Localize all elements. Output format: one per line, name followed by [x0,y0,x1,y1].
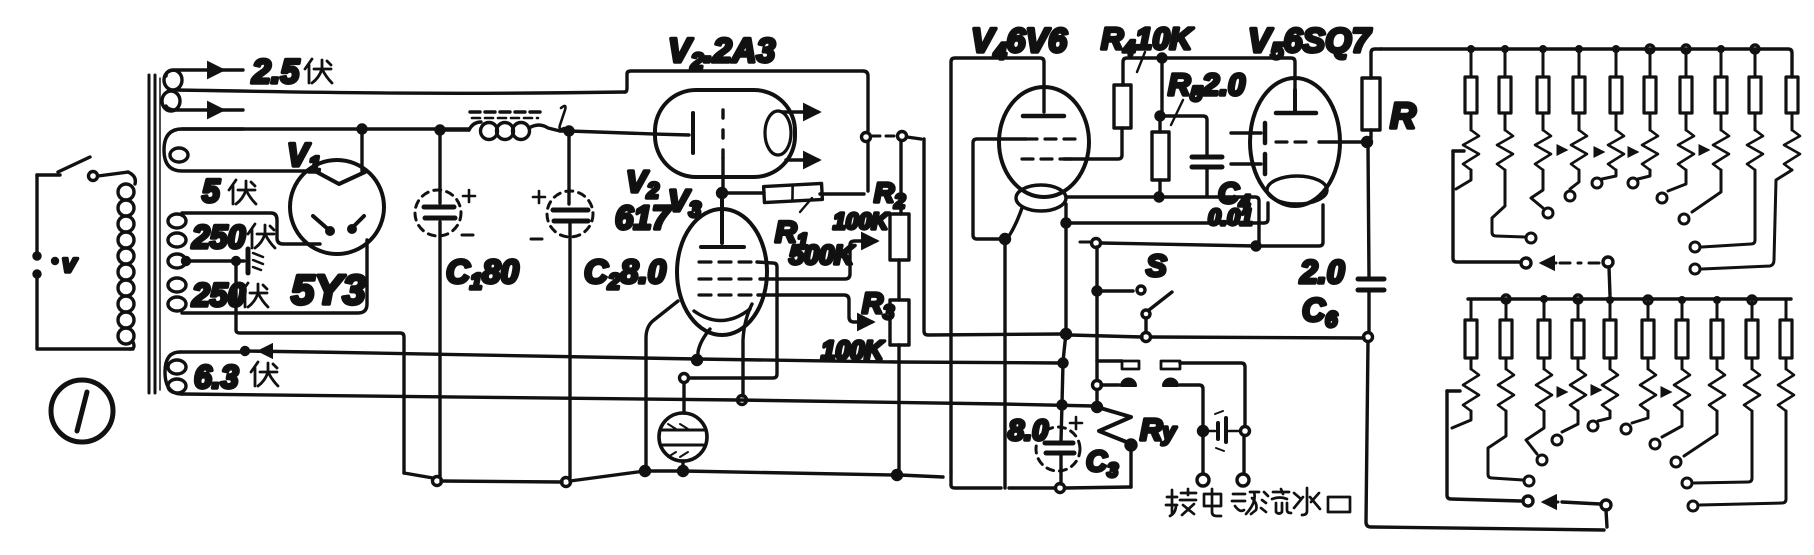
terminal bank2 tap 2 [1488,411,1523,480]
svg-text:R: R [1390,95,1416,136]
terminal bank1 tap 10 [1702,170,1792,269]
label L [560,106,566,129]
svg-text:v: v [62,248,78,278]
wire filament arrows of V2 [782,112,818,160]
resistor bank1 R1-1 [1470,49,1473,77]
resistor bank1 R1-3 [1542,49,1545,77]
choke L [469,112,560,140]
labels 伏 (volts) after each winding value [229,59,332,386]
terminals bank2 (selector taps) [1452,390,1786,511]
wire S line to V5 cathode [1080,205,1323,250]
node B+ R4/R5/V5 [1158,54,1166,62]
pin V5 diode plates [1231,123,1265,174]
resistor bank1 R1-7 [1685,49,1688,77]
wire V3 right lead to heater connector [738,304,753,405]
resistor bank2 R2-3 [1543,299,1546,320]
terminals bank1 (selector taps) [1456,150,1792,274]
resistor bank1 R1-5 [1615,49,1618,77]
wire cathode link V4/R5/C4 [1067,197,1259,244]
terminal bank1 tap 2 [1492,170,1525,237]
terminal bank1 tap 3 [1531,170,1543,208]
wire V4-V5 cathode bus [1066,203,1268,223]
tube V4 6V6 (driver) [999,87,1089,211]
wire V4 lower node down to ground [1003,239,1006,488]
wire 6.3V top lead (long, to V3 cathode and right) [180,348,1060,364]
resistor bank2 R2-7 [1681,299,1684,320]
terminal bank2 tap 3 [1526,411,1544,454]
svg-text:R52.0: R52.0 [1168,67,1245,106]
transformer T1 core [149,75,160,393]
svg-text:S: S [1146,248,1167,283]
wire bank2 collector [1447,391,1611,527]
rectifier V1 5Y3 [290,160,384,254]
resistor bank1 R1-2 [1504,49,1507,77]
node lamp top connector [680,374,689,383]
resistor R (bank feed) [1362,49,1416,138]
resistor R4 10K [1114,52,1158,128]
resistor R3 100K (pot) [890,300,909,480]
capacitor C4 0.01 [1160,116,1222,196]
resistor bank2 R2-10 [1785,299,1788,320]
winding 2.5V (filament of 2A3) [162,70,625,111]
transformer T1 primary winding [118,172,135,349]
wire bank2 tap 1 [1452,411,1471,428]
figure number 1 [51,380,113,442]
winding 5V (5Y3 filament / B+) [164,129,469,171]
svg-text:8.0: 8.0 [1008,415,1048,447]
svg-text:C28.0: C28.0 [584,253,667,294]
node v (mains terminal) [53,248,79,278]
resistors bank2 (ten dropping resistors with rheostats) [1463,299,1794,411]
terminal bank2 tap 4 [1562,411,1578,432]
wire V5 grid out to node R [1319,138,1372,147]
svg-text:100K: 100K [833,208,889,234]
svg-text:250: 250 [191,277,246,313]
lamp / output jack [659,383,707,476]
terminal bank2 tap 9 [1694,411,1752,483]
winding 6.3V [165,352,186,394]
terminal bank2 tap 10 [1700,411,1786,505]
wire ground rail right portion [951,472,1131,488]
wire bank1 tap 1 [1456,170,1471,189]
svg-text:V3: V3 [668,183,701,222]
svg-text:2.0: 2.0 [1299,254,1345,290]
svg-text:Ry: Ry [1140,412,1177,447]
wire bank1 collector / dash-dot link [1453,151,1613,295]
bus bank2 top [1468,297,1791,300]
wire ground rail (bottom bus) [404,467,943,483]
wire V3 top grid line down to lamp node [689,262,777,378]
svg-text:617: 617 [615,199,672,236]
label 接电动流水口 [1166,488,1350,516]
resistor bank1 R1-4 [1578,49,1581,77]
wire filament bracket over V2 [625,71,921,142]
svg-text:500K: 500K [789,240,856,270]
svg-text:V2: V2 [626,164,660,203]
wire V4 plate bracket [951,58,1044,472]
capacitor C3 8.0 (electrolytic) [1036,417,1082,471]
wire V4 screen tap to R4 [1064,128,1122,159]
terminal bank1 tap 7 [1668,170,1686,191]
switch SW mains [34,157,133,349]
ground (centre-tap earth bar) [248,249,263,273]
resistor R1 500K (grid leak) [727,142,868,212]
bus bank1 top [1381,49,1792,77]
svg-text:2.5: 2.5 [251,53,300,91]
resistor bank2 R2-4 [1577,299,1580,320]
resistor bank1 R1-10 [1786,77,1798,113]
wire 6.3V bottom lead (long, to relay Ry) [182,394,1094,406]
tube V2 2A3 (output triode) [655,90,795,177]
node bank2 bus junctions [1540,295,1721,304]
svg-text:C3: C3 [1086,446,1118,482]
capacitor C2 8.0 [531,131,593,487]
terminal bank1 tap 4 [1570,170,1579,189]
terminal bank2 tap 6 [1632,411,1648,423]
wire B+ to V5 plate [1162,58,1295,112]
svg-text:0.01: 0.01 [1208,204,1253,230]
terminal bank2 tap 5 [1598,411,1610,421]
svg-text:R410K: R410K [1101,21,1195,60]
terminal bank1 tap 5 [1602,170,1616,179]
resistor bank2 R2-1 [1470,299,1473,320]
resistor R2 100K (volume pot) [890,141,909,300]
wire V3 left lead to ground rail [646,301,678,469]
wire V4 left grid tap to cathode node [973,139,1026,244]
svg-text:5Y3: 5Y3 [291,266,366,313]
switch S [1093,247,1172,342]
resistor bank1 R1-8 [1720,49,1723,77]
wire centre tap to bottom rail [236,261,404,473]
terminal bank1 tap 6 [1638,170,1650,179]
wire S column down to relay node [1093,295,1102,412]
winding 250V upper [168,213,320,247]
resistor bank1 R1-6 [1649,49,1652,77]
wire V4 cathode column down through C3 [1056,204,1071,493]
wire long bus from V2 connector to S and C6 [924,139,1364,338]
terminal bank2 tap 7 [1662,411,1682,437]
tube V5 6SQ7 (detector) [1250,78,1340,206]
tube V3 6J7 (voltage amplifier) [677,197,767,335]
wire V3 tap to R3 wiper [758,295,872,322]
svg-text:V56SQ7: V56SQ7 [1248,22,1373,64]
svg-text:V2.2A3: V2.2A3 [668,32,775,74]
svg-text:250: 250 [191,219,246,255]
svg-text:C180: C180 [446,253,519,294]
vibrator contact pair [1208,411,1250,451]
resistors bank1 (ten dropping resistors with rheostats) [1463,49,1800,170]
resistor bank2 R2-9 [1751,299,1754,320]
terminal bank1 tap 9 [1702,170,1755,247]
wire V3 grid tap to R2 wiper [760,241,876,279]
resistor R5 2.0 [1152,58,1183,201]
terminal posts [1197,436,1249,486]
svg-text:6.3: 6.3 [194,359,239,395]
wire R bottom to C6 [1368,146,1369,277]
terminal bank1 tap 8 [1692,170,1721,212]
node bank1 bus junctions [1467,45,1725,53]
capacitor C1 80 [415,130,475,486]
svg-text:R3: R3 [862,288,894,324]
relay Ry coil (zigzag) [1097,407,1136,487]
wire plate to B+ line (filament tap) [358,125,366,171]
svg-text:100K: 100K [821,335,885,365]
wire B+ line continuing through choke to V2 plate [436,126,689,135]
resistor bank2 R2-2 [1505,299,1508,320]
pin grid lead V2 down to node [718,158,727,198]
resistor bank2 R2-6 [1647,299,1650,320]
resistor bank1 R1-9 [1754,49,1757,77]
relay contact left (fixed + moving) [1097,361,1139,386]
svg-text:C6: C6 [1302,292,1338,332]
svg-text:5: 5 [202,173,221,209]
relay contact right (fixed + moving) [1161,361,1245,436]
pin V3 cathode to heater wire [693,329,711,365]
resistor bank2 R2-5 [1609,299,1612,320]
winding 250V lower [168,240,367,313]
resistor bank2 R2-8 [1716,299,1719,320]
terminal bank2 tap 8 [1684,411,1717,456]
winding 250V centre tap [168,254,244,268]
capacitor C6 2.0 [1358,279,1604,530]
